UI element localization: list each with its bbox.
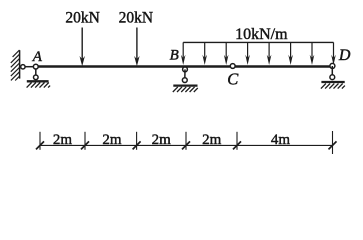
horizontal link wall-to-A <box>21 66 36 68</box>
beam <box>36 65 333 67</box>
svg-text:20kN: 20kN <box>65 9 99 26</box>
force arrow 20kN (second) <box>134 28 139 67</box>
svg-text:2m: 2m <box>102 132 122 148</box>
dimension tick 1 <box>36 132 44 150</box>
svg-text:A: A <box>32 49 43 65</box>
support B: link bar <box>184 69 186 80</box>
support B: ground hatching <box>173 87 198 92</box>
link circle at wall <box>21 65 25 69</box>
distributed load arrows (8) <box>183 42 333 58</box>
dimension tick 6 <box>329 131 337 154</box>
force arrow 20kN (first) <box>80 28 85 67</box>
support B: ground line <box>173 84 197 86</box>
distributed load top line <box>183 41 333 43</box>
dimension tick 4 <box>182 132 190 150</box>
hinge circle A <box>33 64 38 69</box>
svg-text:10kN/m: 10kN/m <box>235 26 288 43</box>
support B: upper link circle <box>183 67 188 72</box>
svg-text:C: C <box>227 70 239 89</box>
vertical link below A <box>35 67 37 78</box>
support D: ground hatching <box>321 84 345 89</box>
support D: lower link circle <box>330 75 335 80</box>
support D: ground line <box>321 81 344 83</box>
wall (left fixed surface) <box>11 50 20 81</box>
dimension line <box>40 144 333 146</box>
dimension tick 3 <box>133 132 141 150</box>
dimension tick 5 <box>233 132 241 150</box>
svg-text:2m: 2m <box>202 132 222 148</box>
svg-text:2m: 2m <box>152 132 172 148</box>
ground line of A support <box>27 80 49 82</box>
ground hatching of A support <box>27 83 50 88</box>
svg-text:D: D <box>338 47 351 64</box>
svg-text:B: B <box>170 48 179 64</box>
support B: lower link circle <box>182 78 187 83</box>
svg-text:20kN: 20kN <box>119 9 153 26</box>
lower link circle at A support <box>34 75 39 80</box>
internal hinge C <box>230 64 235 69</box>
support D: link bar <box>331 66 333 77</box>
svg-text:4m: 4m <box>271 132 291 148</box>
hinge circle D <box>330 63 335 68</box>
dimension tick 2 <box>81 132 89 150</box>
svg-text:2m: 2m <box>53 132 73 148</box>
